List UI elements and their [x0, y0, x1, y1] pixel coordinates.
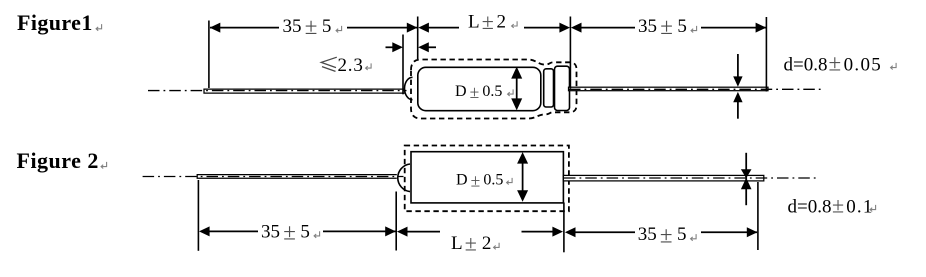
lead left fig1 [204, 89, 405, 93]
dimension 35±5 bottom-right [565, 227, 576, 237]
label ≤2.3 [321, 57, 337, 71]
arc lead-to-body fig1 [405, 77, 413, 99]
dimension 35±5 bottom-left [199, 226, 210, 236]
extension line left fig2 [197, 180, 199, 251]
dimension 35±5 top-left [210, 27, 279, 29]
centerline fig1 left [148, 90, 407, 92]
lead left fig2 [197, 175, 397, 179]
cap fig1 [555, 66, 570, 110]
dashed outline fig1 [411, 60, 577, 119]
body fig2 [411, 152, 563, 203]
svg-text:35±5: 35±5 [283, 14, 332, 39]
svg-text:2.3: 2.3 [338, 55, 364, 76]
svg-text:35±5: 35±5 [638, 14, 687, 39]
sleeve fig1 [544, 69, 554, 107]
svg-text:d=0.8±0.1: d=0.8±0.1 [788, 193, 874, 218]
svg-text:L±2: L±2 [451, 230, 491, 255]
body fig1 [418, 67, 541, 110]
extension line cap-right fig1 [569, 17, 571, 89]
svg-text:Figure1: Figure1 [17, 10, 93, 35]
centerline fig2 right [564, 177, 819, 179]
dimension 35±5 top-right [571, 23, 582, 33]
extension line crimp fig1 [402, 35, 404, 95]
extension line lead-end fig1 [765, 17, 767, 92]
dimension L±2 top [418, 23, 429, 33]
diameter arrows lead fig1 [737, 54, 739, 77]
lead right fig1 [569, 87, 769, 91]
extension line body-right fig2 [563, 203, 565, 253]
dashed outline fig2 [405, 146, 569, 212]
svg-text:Figure 2: Figure 2 [17, 148, 99, 173]
svg-text:L±2: L±2 [468, 9, 506, 34]
dimension ≤2.3 arrows [386, 46, 397, 48]
svg-text:D±0.5: D±0.5 [456, 170, 503, 190]
extension line body-left fig1 [417, 17, 419, 60]
centerline fig2 left [143, 176, 404, 178]
extension line left fig1 [208, 21, 210, 89]
centerline fig1 right [569, 88, 824, 90]
svg-text:d=0.8±0.05: d=0.8±0.05 [784, 51, 883, 76]
svg-text:35±5: 35±5 [638, 223, 687, 248]
svg-text:D±0.5: D±0.5 [455, 82, 502, 102]
diameter arrow fig2 [522, 158, 524, 196]
lead right fig2 [563, 175, 763, 181]
extension line lead-end fig2 [757, 182, 759, 250]
diameter pinch arrows fig2 [745, 153, 747, 205]
dimension L±2 bottom [397, 227, 408, 237]
svg-text:35±5: 35±5 [261, 220, 310, 245]
bead arc fig2 [398, 164, 410, 192]
diameter arrow fig1 [516, 72, 518, 105]
extension line body-left fig2 [395, 192, 397, 251]
